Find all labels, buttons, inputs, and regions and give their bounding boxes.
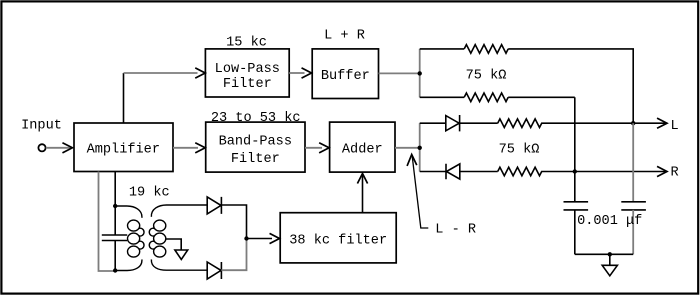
- ground symbol output: [602, 254, 617, 275]
- wire right vertical x633: [632, 123, 634, 202]
- wire L row to output: [541, 122, 665, 124]
- block Buffer: [312, 49, 378, 99]
- svg-text:Filter: Filter: [223, 77, 272, 92]
- diode D1 L channel: [446, 115, 460, 131]
- wire ground rail: [575, 253, 633, 255]
- node A junction dot: [418, 71, 422, 75]
- wire second resistor row right: [508, 96, 575, 98]
- block Adder: [330, 122, 395, 172]
- svg-text:L: L: [671, 119, 679, 134]
- wire buffer output to node A: [379, 72, 420, 74]
- wire adder output to node B: [395, 147, 420, 149]
- svg-text:Buffer: Buffer: [321, 69, 370, 84]
- resistor R4 75 kOhm R: [498, 167, 542, 176]
- diode D3 top detector: [207, 197, 221, 214]
- wire R row to diode: [420, 171, 446, 173]
- wire L row to diode: [420, 122, 446, 124]
- wire low-pass filter to buffer: [289, 72, 304, 74]
- resistor R3 75 kOhm L: [498, 119, 542, 128]
- svg-text:Low-Pass: Low-Pass: [215, 62, 280, 77]
- wire amplifier bottom left branch: [99, 172, 116, 272]
- svg-text:75 kΩ: 75 kΩ: [499, 143, 540, 158]
- node primary top dot: [113, 204, 117, 208]
- block Amplifier U1: [74, 123, 173, 172]
- wire L row diode to resistor: [460, 122, 498, 124]
- svg-text:0.001 μf: 0.001 μf: [577, 214, 642, 229]
- svg-text:Adder: Adder: [342, 143, 383, 158]
- transformer T1 secondary winding: [149, 205, 207, 270]
- svg-text:L + R: L + R: [324, 29, 365, 44]
- wire node A vertical: [419, 49, 421, 97]
- wire secondary center tap: [165, 239, 181, 250]
- node L junction dot: [631, 121, 635, 125]
- wire top diode to corner: [221, 205, 246, 239]
- wire second resistor row left: [420, 96, 465, 98]
- wire bottom diode to corner: [221, 239, 246, 271]
- wire band-pass filter to adder: [305, 147, 322, 149]
- svg-text:R: R: [671, 166, 679, 181]
- svg-text:Amplifier: Amplifier: [87, 143, 160, 158]
- svg-text:L - R: L - R: [435, 223, 476, 238]
- wire left capacitor to rail: [574, 210, 576, 254]
- diode D2 R channel: [446, 164, 460, 180]
- svg-text:75 kΩ: 75 kΩ: [466, 69, 507, 84]
- wire detector to 38 kc filter: [247, 238, 273, 240]
- wire input to amplifier: [46, 147, 71, 149]
- wire top resistor row right: [508, 49, 633, 123]
- annotation arrow L - R: [412, 157, 428, 228]
- node ground rail dot: [608, 252, 612, 256]
- node detector output dot: [244, 236, 248, 240]
- ground symbol center tap: [175, 250, 188, 260]
- wire 38 kc filter to adder: [362, 176, 364, 213]
- capacitor C2 0.001 uf right: [621, 202, 646, 210]
- svg-text:Input: Input: [21, 119, 62, 134]
- wire right capacitor to rail: [632, 210, 634, 254]
- node primary bottom dot: [113, 268, 117, 272]
- svg-text:Band-Pass: Band-Pass: [219, 135, 292, 150]
- node R junction dot: [573, 169, 577, 173]
- node Input terminal: [38, 144, 45, 151]
- block Band-Pass Filter: [206, 122, 305, 172]
- resistor R1 75 kOhm top: [464, 45, 508, 54]
- capacitor C1 0.001 uf left: [564, 202, 589, 210]
- svg-text:23 to 53 kc: 23 to 53 kc: [211, 111, 301, 126]
- wire right vertical x575: [574, 97, 576, 202]
- capacitor C3 19kc tank: [102, 206, 127, 271]
- wire R row diode to resistor: [460, 171, 498, 173]
- svg-text:Filter: Filter: [231, 152, 280, 167]
- wire node B vertical: [419, 123, 421, 171]
- node B junction dot: [418, 146, 422, 150]
- diode D4 bottom detector: [207, 262, 221, 279]
- wire top resistor row left: [420, 48, 465, 50]
- block 38 kc filter: [280, 213, 396, 263]
- transformer T1 primary winding: [115, 206, 144, 271]
- wire amplifier to band-pass filter: [173, 147, 198, 149]
- block Low-Pass Filter: [205, 49, 289, 97]
- resistor R2 75 kOhm second: [464, 93, 508, 102]
- wire R row to output: [541, 171, 665, 173]
- wire amplifier bottom right branch: [114, 172, 116, 207]
- svg-text:19 kc: 19 kc: [129, 186, 170, 201]
- svg-text:38 kc filter: 38 kc filter: [289, 234, 387, 249]
- wire amplifier top branch to low-pass filter: [123, 73, 125, 123]
